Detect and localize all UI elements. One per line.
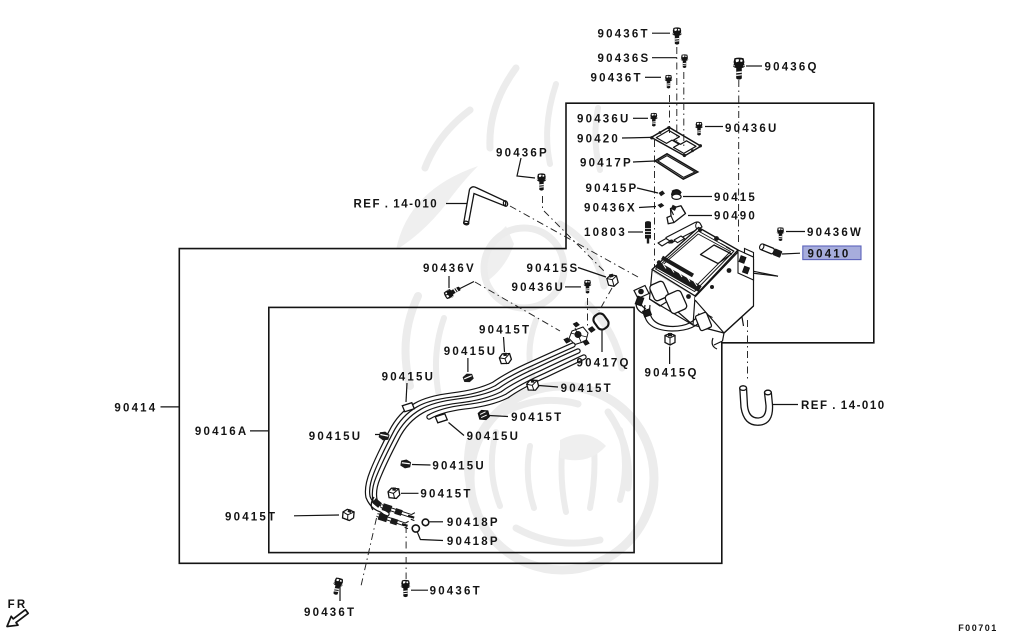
svg-text:90415T: 90415T	[479, 324, 531, 336]
svg-text:10803: 10803	[584, 227, 627, 239]
svg-text:90418P: 90418P	[447, 536, 500, 548]
svg-text:90436P: 90436P	[496, 148, 549, 160]
svg-text:90415T: 90415T	[420, 488, 472, 500]
svg-text:90415U: 90415U	[382, 371, 435, 383]
svg-text:90410: 90410	[808, 248, 851, 260]
svg-text:90436X: 90436X	[584, 203, 637, 215]
svg-text:90436U: 90436U	[577, 113, 630, 125]
svg-text:90417Q: 90417Q	[577, 358, 631, 370]
svg-text:90415S: 90415S	[527, 263, 580, 275]
svg-text:90417P: 90417P	[580, 157, 633, 169]
svg-text:90415P: 90415P	[586, 183, 639, 195]
svg-text:F00701: F00701	[958, 623, 998, 633]
svg-text:90415T: 90415T	[511, 412, 563, 424]
svg-text:90416A: 90416A	[195, 426, 248, 438]
svg-text:FR: FR	[8, 599, 28, 611]
svg-text:REF . 14-010: REF . 14-010	[354, 199, 439, 211]
svg-text:90414: 90414	[114, 402, 157, 414]
svg-text:90436U: 90436U	[725, 123, 778, 135]
svg-text:90436W: 90436W	[807, 227, 863, 239]
svg-text:90490: 90490	[714, 211, 757, 223]
svg-text:90436S: 90436S	[598, 53, 651, 65]
svg-text:90436Q: 90436Q	[765, 61, 819, 73]
svg-text:90436T: 90436T	[598, 28, 650, 40]
svg-text:90415T: 90415T	[561, 383, 613, 395]
svg-text:90420: 90420	[577, 133, 620, 145]
svg-text:90415: 90415	[714, 192, 757, 204]
svg-text:90436T: 90436T	[304, 607, 356, 619]
svg-text:90415Q: 90415Q	[645, 368, 699, 380]
svg-text:REF . 14-010: REF . 14-010	[801, 400, 886, 412]
svg-text:90415U: 90415U	[444, 346, 497, 358]
svg-text:90436T: 90436T	[430, 585, 482, 597]
svg-text:90436U: 90436U	[512, 282, 565, 294]
svg-text:90436T: 90436T	[591, 72, 643, 84]
svg-text:90415U: 90415U	[309, 431, 362, 443]
svg-text:90415U: 90415U	[467, 431, 520, 443]
svg-text:90415T: 90415T	[225, 511, 277, 523]
svg-text:90415U: 90415U	[432, 460, 485, 472]
svg-text:90436V: 90436V	[423, 263, 476, 275]
svg-text:90418P: 90418P	[447, 517, 500, 529]
